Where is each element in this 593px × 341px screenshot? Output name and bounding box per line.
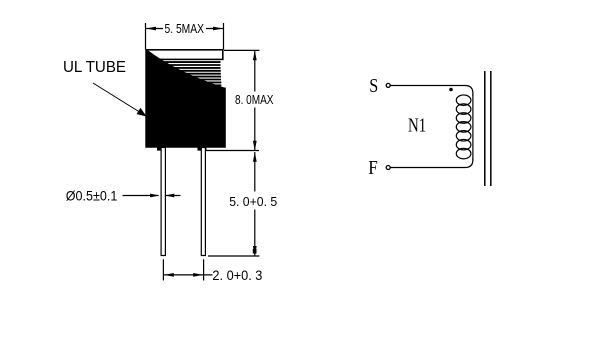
dimension 5.5MAX extension line right (223, 23, 225, 50)
dimension 5.5MAX line (146, 28, 223, 30)
terminal F circle (386, 166, 390, 170)
dimension 5.0+0.5 bottom arrowhead (253, 246, 257, 256)
dimension 5.5MAX extension line left (145, 23, 147, 50)
dimension 5.5MAX left arrowhead (146, 27, 156, 31)
core line right (490, 71, 492, 186)
dimension 2.0+0.3 right arrowhead (193, 273, 203, 277)
bobbin tube flange (white strip) (147, 50, 223, 60)
label diameter 0.5 (66, 188, 118, 204)
svg-text:S: S (369, 76, 378, 97)
coil turn 6 (456, 139, 471, 150)
svg-text:N1: N1 (408, 115, 426, 136)
winding label N1 (408, 115, 426, 136)
dimension 5.0+0.5 top arrowhead (253, 152, 257, 162)
svg-text:Ø0.5±0.1: Ø0.5±0.1 (66, 188, 118, 204)
coil turn 3 (456, 113, 471, 124)
coil winding hatch lines (150, 62, 221, 85)
terminal label F (368, 158, 378, 179)
UL tube black body (146, 49, 226, 147)
svg-text:5. 0+0. 5: 5. 0+0. 5 (229, 195, 277, 209)
wire F to coil (390, 158, 473, 168)
coil turn 4 (456, 122, 471, 132)
dimension label 5.0+0.5 (229, 195, 277, 209)
dimension 5.0+0.5 line (254, 152, 256, 256)
diameter leader line with left arrowhead (165, 194, 181, 198)
dimension label 5.5MAX (165, 21, 205, 36)
extension line bottom right (lead bottom) (208, 255, 259, 257)
terminal S circle (386, 83, 390, 87)
extension line mid right (body bottom) (206, 150, 259, 152)
coil turn 7 (456, 148, 471, 159)
leader arrow from UL TUBE to body (93, 83, 147, 117)
diameter leader line with right arrowhead (123, 194, 160, 198)
svg-text:F: F (368, 158, 378, 179)
dimension 2.0+0.3 left arrowhead (164, 273, 174, 277)
svg-text:5. 5MAX: 5. 5MAX (165, 21, 205, 36)
coil turn 2 (456, 104, 471, 115)
lead solder joints at body bottom (157, 147, 207, 151)
dimension 8.0MAX top arrowhead (253, 50, 257, 60)
core line left (484, 71, 486, 186)
dimension 2.0+0.3 line (163, 274, 212, 276)
coil turn 1 (456, 95, 471, 106)
dimension 8.0MAX bottom arrowhead (253, 141, 257, 151)
wire S to coil (390, 86, 473, 97)
polarity dot (449, 88, 453, 92)
svg-text:8. 0MAX: 8. 0MAX (235, 92, 274, 107)
coil turn 5 (456, 131, 471, 142)
label UL TUBE (63, 59, 126, 76)
dimension 2.0+0.3 extension line left (162, 259, 164, 280)
dimension 2.0+0.3 extension line right (203, 259, 205, 280)
lead wire left (161, 148, 165, 256)
dimension 8.0MAX line (254, 51, 256, 151)
svg-text:2. 0+0. 3: 2. 0+0. 3 (212, 268, 262, 283)
dimension label 2.0+0.3 (212, 268, 262, 283)
lead wire right (201, 148, 205, 256)
dimension label 8.0MAX (235, 92, 274, 107)
terminal label S (369, 76, 378, 97)
extension line top right (body top) (224, 49, 260, 51)
coil vertical wire (472, 94, 474, 160)
svg-text:UL TUBE: UL TUBE (63, 59, 126, 76)
dimension 5.5MAX right arrowhead (213, 27, 223, 31)
